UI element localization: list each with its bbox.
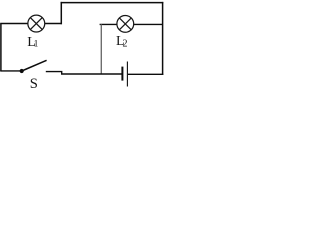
wire: riser from L1 wire up to top rail [60,2,62,24]
switch S pivot dot [20,69,24,73]
lamp L1 (circle with X) [28,15,45,32]
label L1 [27,35,38,50]
switch S blade (open, tilted up) [22,60,47,71]
wire: gray vertical from L2 branch down to bottom wire (junction) [100,24,102,74]
wire: L2 branch horizontal [100,23,163,25]
wire: top rail [61,2,164,4]
wire: top-left horizontal into lamp L1 [0,23,28,25]
wire: lamp L1 to riser at x=61 [45,23,62,25]
wire: switch pivot feed (left edge to pivot dot) [0,70,21,72]
battery negative plate (short thick) [121,67,123,81]
battery positive plate (long thin) [126,62,128,87]
svg-text:S: S [30,76,38,90]
wire: bottom-left segment (switch contact to step at x=61) [46,72,62,74]
wire: battery positive plate to right vertical [128,73,163,75]
wire: bottom wire from junction area to battery negative plate [61,73,122,75]
label L2 [116,34,128,49]
svg-text:2: 2 [123,39,128,50]
wire: right vertical (top rail down to battery) [162,2,164,75]
lamp L2 (circle with X) [117,16,134,33]
svg-text:1: 1 [34,39,39,49]
wire: left vertical (left edge, L1 branch to switch) [0,24,2,71]
